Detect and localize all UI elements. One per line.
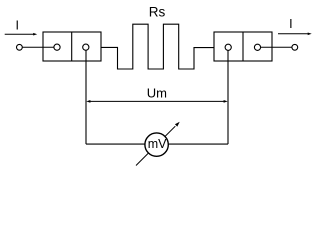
svg-text:Rs: Rs	[149, 5, 166, 20]
svg-text:I: I	[289, 17, 292, 31]
svg-text:I: I	[15, 18, 18, 32]
svg-text:mV: mV	[148, 137, 167, 151]
svg-text:Um: Um	[147, 86, 167, 101]
